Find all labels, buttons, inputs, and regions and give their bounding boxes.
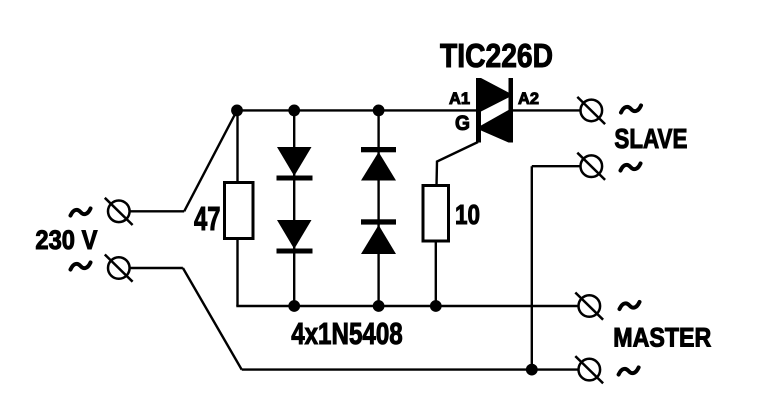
node junction top bus diode2: [373, 105, 385, 117]
wire 230V top terminal horizontal: [130, 210, 185, 212]
terminal slave 1: [577, 97, 605, 124]
wire vertical slave2 to master2: [531, 166, 533, 369]
triac U1 TIC226D: [476, 78, 513, 143]
wire 230V top diagonal to top bus: [184, 110, 237, 211]
svg-text:10: 10: [455, 199, 480, 230]
node junction top bus left: [231, 105, 243, 117]
resistor R1 47: [225, 183, 254, 239]
wire gate polyline: [437, 142, 479, 186]
svg-text:MASTER: MASTER: [613, 323, 711, 353]
resistor R2 10: [423, 186, 449, 242]
tilde slave 2: [621, 164, 641, 171]
wire top bus: [236, 109, 478, 111]
svg-text:47: 47: [194, 200, 221, 237]
wire 47-resistor bottom: [236, 239, 238, 307]
svg-text:4x1N5408: 4x1N5408: [291, 316, 403, 351]
tilde master 2: [619, 368, 639, 375]
tilde slave 1: [621, 106, 641, 113]
tilde master 1: [620, 302, 640, 309]
svg-text:G: G: [455, 112, 470, 135]
terminal slave 2: [577, 153, 605, 180]
node junction bottom bus diode1: [288, 300, 300, 312]
svg-text:A1: A1: [449, 90, 470, 108]
tilde 230V bottom: [71, 263, 91, 270]
svg-text:230 V: 230 V: [35, 225, 97, 255]
diode D4 (right column bottom, cathode up): [361, 219, 396, 254]
svg-text:TIC226D: TIC226D: [440, 37, 553, 74]
diode D3 (right column top, cathode up): [361, 147, 396, 181]
terminal 230V line 2: [105, 255, 133, 282]
node junction master2: [526, 364, 538, 376]
wire diode branch 2: [377, 110, 379, 306]
terminal master 1: [575, 293, 603, 320]
wire bottom rail to master terminal 2: [242, 368, 579, 370]
node junction bottom bus diode2: [373, 300, 385, 312]
terminal 230V line 1: [105, 198, 133, 225]
wire slave terminal 2 horizontal: [532, 165, 581, 167]
diode D2 (left column bottom, cathode down): [277, 220, 313, 254]
node junction bottom bus resistor10: [430, 300, 442, 312]
wire 230V bottom diagonal: [183, 268, 242, 370]
svg-text:A2: A2: [518, 90, 539, 108]
wire diode branch 1: [293, 110, 295, 306]
tilde 230V top: [71, 209, 91, 216]
wire 10-resistor bottom: [435, 241, 437, 306]
node junction top bus diode1: [288, 105, 300, 117]
wire 230V bottom terminal horizontal: [130, 267, 183, 269]
terminal master 2: [575, 356, 603, 383]
wire 47-resistor top: [236, 110, 238, 182]
svg-text:SLAVE: SLAVE: [614, 123, 687, 154]
wire A2 to slave terminal: [512, 109, 581, 111]
diode D1 (left column top, cathode down): [277, 147, 313, 181]
wire bottom bus: [236, 305, 578, 307]
